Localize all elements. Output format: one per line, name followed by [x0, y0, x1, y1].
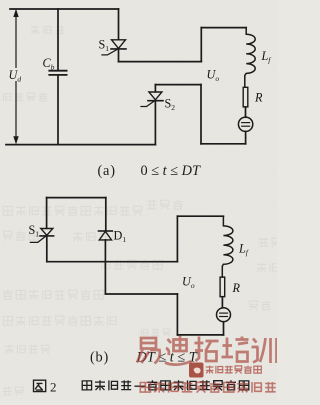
svg-text:0 ≤ t ≤ DT: 0 ≤ t ≤ DT	[141, 163, 201, 179]
svg-text:R: R	[232, 281, 241, 295]
svg-text:2: 2	[50, 380, 57, 395]
svg-text:(a): (a)	[98, 163, 116, 179]
svg-text:(b): (b)	[90, 350, 109, 366]
svg-text:R: R	[254, 91, 263, 105]
